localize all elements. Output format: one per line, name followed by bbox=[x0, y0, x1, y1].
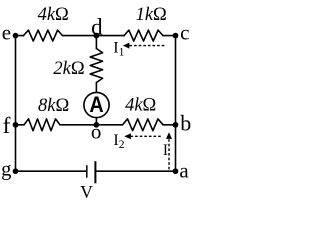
node b dot bbox=[173, 122, 179, 128]
wire right side c-b-a bbox=[175, 36, 177, 172]
battery V long plate bbox=[94, 161, 96, 183]
resistor 1k ohm top-right bbox=[124, 30, 163, 41]
resistor 2k ohm vertical bbox=[90, 49, 102, 83]
wire 1k ohm to c bbox=[163, 35, 176, 37]
wire ammeter to o bbox=[95, 118, 97, 125]
wire 2k ohm to ammeter bbox=[95, 83, 97, 93]
svg-text:c: c bbox=[180, 20, 189, 44]
svg-text:e: e bbox=[2, 20, 11, 44]
svg-text:2kΩ: 2kΩ bbox=[53, 59, 84, 79]
svg-text:V: V bbox=[80, 182, 93, 202]
current I2 dashed arrow bbox=[131, 135, 163, 137]
svg-text:o: o bbox=[91, 120, 102, 144]
wire 4k ohm to d to 1k ohm bbox=[63, 35, 125, 37]
ammeter A1 circle bbox=[84, 92, 109, 117]
node c dot bbox=[173, 33, 179, 39]
svg-text:a: a bbox=[179, 159, 189, 183]
node g dot bbox=[13, 168, 19, 174]
resistor 8k ohm middle-left bbox=[24, 119, 60, 131]
svg-text:1kΩ: 1kΩ bbox=[136, 5, 167, 25]
node a dot bbox=[173, 168, 179, 174]
battery V short plate bbox=[86, 165, 88, 178]
svg-text:4kΩ: 4kΩ bbox=[38, 5, 69, 25]
wire d down to 2k ohm bbox=[95, 36, 97, 49]
resistor 4k ohm top-left bbox=[24, 30, 63, 41]
node o dot bbox=[94, 122, 100, 128]
current I1 dashed arrow bbox=[130, 45, 165, 47]
wire g to battery bbox=[16, 170, 87, 172]
svg-text:A: A bbox=[89, 92, 103, 117]
wire f to 8k ohm bbox=[16, 124, 25, 126]
svg-text:8kΩ: 8kΩ bbox=[38, 96, 69, 116]
wire battery to a bbox=[95, 170, 175, 172]
node e dot bbox=[13, 33, 19, 39]
wire 8k ohm through o to 4k ohm bbox=[60, 124, 123, 126]
svg-text:4kΩ: 4kΩ bbox=[125, 96, 156, 116]
svg-text:b: b bbox=[180, 110, 191, 135]
node d dot bbox=[94, 33, 100, 39]
resistor 4k ohm middle-right bbox=[123, 119, 164, 131]
wire left side e-f-g bbox=[15, 36, 17, 172]
svg-text:g: g bbox=[1, 158, 11, 180]
svg-text:d: d bbox=[91, 14, 103, 39]
current I vertical dashed arrow bbox=[168, 139, 170, 171]
svg-text:I: I bbox=[163, 142, 168, 159]
wire 4k ohm to b bbox=[163, 124, 176, 126]
node f dot bbox=[13, 122, 19, 128]
wire e to 4k ohm resistor bbox=[16, 35, 24, 37]
svg-text:f: f bbox=[3, 113, 11, 139]
